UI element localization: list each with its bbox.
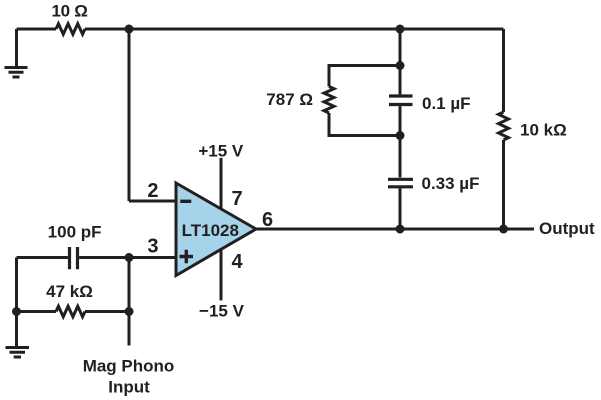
wire middle branch mid [399,106,402,177]
wire 100pF net horizontal [17,256,177,259]
resistor R4 10kΩ [499,112,509,140]
svg-text:2: 2 [147,180,158,202]
wire 787 branch top [329,66,400,87]
op-amp minus input symbol [180,200,191,203]
svg-text:Input: Input [108,377,150,396]
wire 787 branch bottom [329,113,400,136]
svg-text:787 Ω: 787 Ω [266,90,313,109]
label Mag Phono Input [83,357,175,397]
wire input stub vertical [128,258,131,346]
wire top rail left segment [17,28,57,31]
node junction top rail / inverting branch [125,25,134,34]
wire output horizontal [256,228,534,231]
svg-text:0.1 µF: 0.1 µF [422,94,471,113]
wire to pin 2 [129,200,176,203]
svg-text:3: 3 [147,235,158,257]
wire right vertical lower [502,140,505,229]
svg-text:7: 7 [232,188,243,210]
wire 47k net horizontal [17,310,130,313]
resistor R1 10Ω [56,24,85,35]
svg-text:+15 V: +15 V [198,142,244,161]
capacitor C2 0.1µF [389,96,413,105]
node junction 47k right [125,307,134,316]
resistor R3 787Ω [324,87,334,114]
svg-text:10 Ω: 10 Ω [51,2,87,21]
node junction pin3 / input [125,253,134,262]
wire middle branch lower [399,188,402,229]
wire supply vertical [220,158,223,301]
wire middle branch upper [399,29,402,94]
node junction 47k left [12,307,21,316]
svg-text:Output: Output [539,219,595,238]
op-amp U1 LT1028 [176,183,256,276]
wire top rail right segment [85,28,504,31]
svg-text:47 kΩ: 47 kΩ [46,282,93,301]
ground GND1 top-left [5,29,28,77]
capacitor C1 100pF [70,247,78,269]
svg-text:10 kΩ: 10 kΩ [520,121,567,140]
svg-text:−15 V: −15 V [199,302,245,321]
svg-text:0.33 µF: 0.33 µF [422,174,480,193]
capacitor C3 0.33µF [388,179,413,187]
ground GND2 bottom-left [6,348,30,358]
resistor R2 47kΩ [56,306,85,317]
node junction top rail / feedback branch [396,25,405,34]
svg-text:Mag Phono: Mag Phono [83,357,175,376]
node junction output / 10k [499,225,508,234]
op-amp plus input symbol [180,250,194,264]
svg-text:100 pF: 100 pF [48,223,102,242]
wire left input vertical [15,258,18,347]
node junction 787 bottom [396,131,405,140]
node junction output / RC branch [396,225,405,234]
svg-text:4: 4 [232,251,244,273]
node junction 787 top [396,61,405,70]
svg-text:LT1028: LT1028 [182,221,239,240]
wire inverting feedback vertical [128,29,131,201]
wire right vertical upper [502,29,505,112]
